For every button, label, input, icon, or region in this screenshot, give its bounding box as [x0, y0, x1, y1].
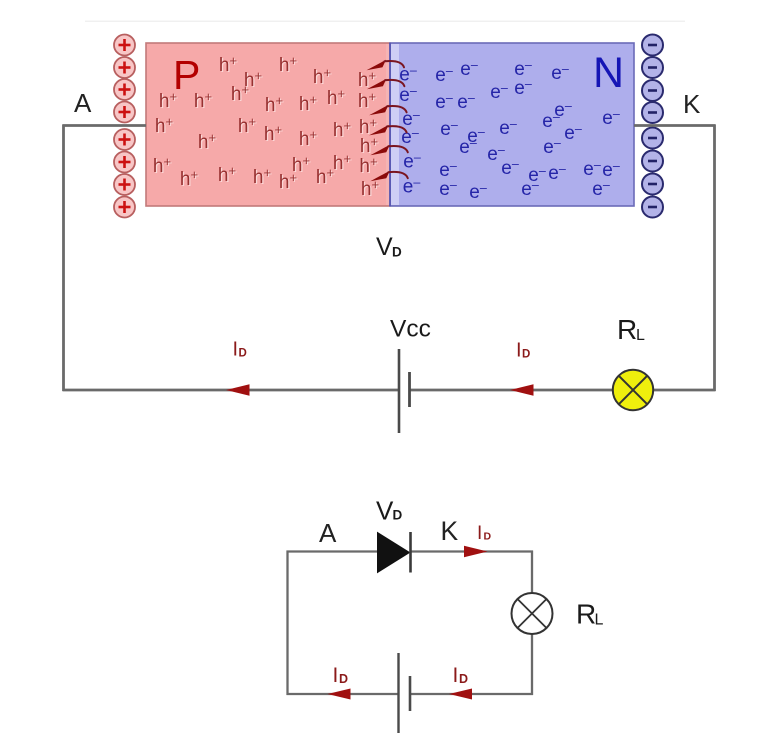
- svg-text:D: D: [392, 245, 402, 260]
- svg-text:D: D: [522, 349, 530, 361]
- diode D1 cathode bar: [409, 532, 412, 573]
- wire: battery to lamp: [410, 389, 613, 392]
- svg-text:A: A: [74, 88, 92, 118]
- svg-text:I: I: [516, 340, 522, 362]
- svg-text:N: N: [593, 49, 624, 97]
- bottom circuit: bottom wire right (battery to corner): [411, 693, 533, 695]
- svg-text:D: D: [339, 672, 348, 686]
- e- electron carriers in N region: [399, 58, 620, 203]
- svg-text:I: I: [233, 339, 239, 361]
- negative charge column at cathode (8 minus ions): [642, 35, 663, 218]
- electron flow arrow 2 across junction: [367, 79, 405, 90]
- svg-text:V: V: [376, 496, 394, 526]
- electron flow arrow 5 across junction: [370, 145, 408, 156]
- N region (n-type semiconductor block): [390, 43, 634, 206]
- PN junction line: [389, 43, 391, 206]
- bottom circuit: top wire left (A to diode): [287, 550, 379, 552]
- svg-text:D: D: [239, 348, 247, 360]
- wire: bottom left horizontal to battery: [63, 389, 399, 392]
- wire: cathode lead from N block to K: [634, 124, 716, 127]
- battery Vcc long plate (positive): [398, 349, 401, 433]
- svg-text:D: D: [393, 508, 403, 523]
- svg-text:I: I: [333, 664, 339, 687]
- h+ hole carriers in P region: [153, 53, 380, 201]
- battery Vcc short plate (negative): [408, 372, 411, 407]
- svg-text:D: D: [484, 531, 492, 543]
- faint artifact line at top: [85, 21, 685, 23]
- current arrow ID pointing left (bottom circuit lower right): [449, 689, 472, 700]
- svg-text:I: I: [453, 664, 459, 687]
- wire: left vertical (anode down to battery loop): [62, 125, 65, 392]
- bottom circuit: left vertical wire: [286, 551, 288, 696]
- lamp RL (yellow, middle circuit): [613, 370, 653, 410]
- svg-text:V: V: [376, 233, 393, 261]
- electron flow arrow 4 across junction: [369, 125, 407, 135]
- bottom circuit: bottom wire left (corner to battery): [287, 693, 399, 695]
- svg-text:K: K: [683, 89, 701, 119]
- bottom circuit: top wire right (diode to corner): [410, 550, 533, 552]
- light band left of junction: [386, 44, 390, 205]
- battery short plate (bottom circuit): [409, 676, 412, 711]
- current arrow ID pointing left (left, middle circuit): [226, 384, 250, 396]
- svg-text:L: L: [636, 327, 645, 344]
- current arrow ID pointing right (bottom circuit top): [464, 546, 488, 557]
- lamp RL (white, bottom circuit): [512, 593, 553, 634]
- svg-text:I: I: [477, 523, 482, 544]
- svg-text:Vcc: Vcc: [390, 316, 431, 343]
- wire: anode lead from A into P block: [63, 124, 147, 127]
- svg-text:L: L: [595, 612, 604, 629]
- wire: right vertical (cathode side): [713, 125, 716, 392]
- electron flow arrow 3 across junction: [369, 105, 407, 116]
- bottom circuit: right vertical wire upper (corner to lamp): [531, 551, 533, 594]
- svg-text:D: D: [459, 672, 468, 686]
- current arrow ID pointing left (bottom circuit lower left): [328, 689, 351, 700]
- svg-text:R: R: [617, 314, 637, 345]
- battery long plate (bottom circuit): [397, 653, 399, 733]
- light band right of junction: [391, 44, 399, 205]
- current arrow ID pointing left (right, middle circuit): [510, 384, 534, 396]
- svg-text:K: K: [441, 516, 459, 546]
- P region (p-type semiconductor block): [146, 43, 390, 206]
- positive charge column at anode (8 plus ions): [114, 35, 135, 218]
- electron flow arrow 1 across junction: [367, 60, 405, 71]
- svg-text:R: R: [576, 599, 596, 630]
- wire: lamp to right vertical: [653, 389, 716, 392]
- svg-text:A: A: [319, 518, 337, 548]
- diode D1 triangle (anode side, filled): [378, 533, 410, 573]
- bottom circuit: right vertical wire lower (lamp to corner): [531, 634, 533, 695]
- electron flow arrow 6 across junction: [370, 171, 408, 182]
